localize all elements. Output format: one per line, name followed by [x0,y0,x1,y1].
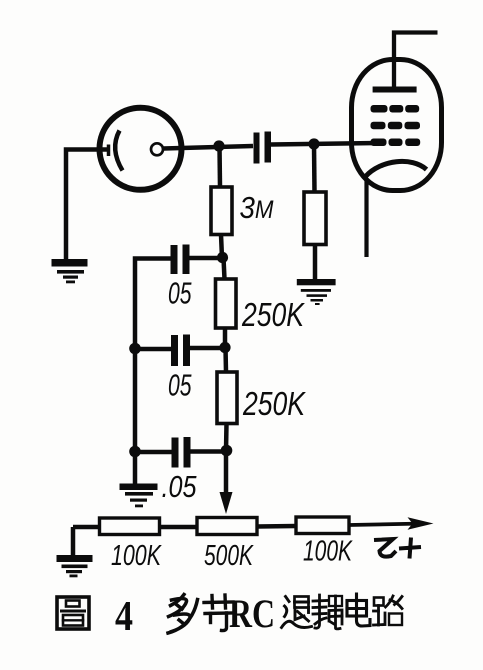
wire: R5 to R6 [160,525,198,530]
char 退 [282,597,312,628]
wire with wiper arrow onto 500K pot [224,451,229,494]
wire: C4 right to node F [191,449,227,454]
resistor R7 100K [296,517,349,534]
wire: circle left into needle, and to ground drop [66,150,110,261]
wire: C4 left to bus [135,450,172,455]
wire: R6 to R7 [257,524,296,529]
wire: R7 to B+ arrow [349,524,424,526]
char 路 [374,596,403,625]
node G (junction dot on left bus) [129,446,141,458]
char 电 [347,594,370,626]
wire: cap C1 to tube grid [271,143,378,145]
node D (junction dot) [219,342,230,353]
tube cathode lead [364,178,368,257]
arrow head (wiper) [220,492,233,514]
resistor R2 (grid leak) [304,192,326,245]
wire: left end [73,527,100,556]
char 圖 [57,597,89,629]
char 节 [204,595,233,631]
pickup transducer P1 (circle) [100,108,182,190]
node A (junction dot at 3M top) [213,140,224,151]
tube grid dashes row 1 [371,105,420,113]
tube V1 envelope [352,60,442,191]
label B+ (乙+) [374,538,421,559]
wire: C2 right to node C [190,256,223,261]
svg-text:05: 05 [168,368,192,403]
resistor R6 500K (pot) [197,518,257,535]
wire: node C to R3 [224,258,225,279]
wire: node A down to R1 [217,146,222,187]
wire: C2 left to left bus [135,259,171,485]
tube grid dashes row 2 [371,122,421,130]
wire: node D to R4 [223,348,228,372]
resistor R3 250K upper [216,279,237,328]
svg-text:4: 4 [115,594,133,640]
ground G4 (bottom left) [57,555,93,577]
capacitor C4 (.05, plates) [172,437,191,468]
node B (junction dot at grid resistor top) [308,138,319,149]
resistor R4 250K lower [217,372,237,424]
wire: C3 right to node D [190,346,225,351]
pickup needle tick [107,145,111,157]
wire: pickup terminal to coupling cap [164,146,254,149]
svg-text:RC: RC [229,591,275,636]
svg-text:.05: .05 [162,469,198,504]
wire: C3 left to bus [135,347,171,352]
svg-text:250K: 250K [242,385,306,422]
char 多 [168,595,198,634]
wire: R4 bottom to node F [224,424,229,452]
svg-text:05: 05 [168,276,192,311]
capacitor C2 (05 upper, plates) [171,245,190,275]
wire: grid resistor top [312,144,317,192]
svg-text:100K: 100K [111,540,162,572]
tube plate bar [373,87,417,93]
svg-text:500K: 500K [204,540,254,572]
pickup output terminal (small circle) [151,143,163,155]
resistor R1 3M [211,187,232,235]
pickup crystal arc [115,131,122,171]
node E (junction dot on left bus) [129,343,141,355]
tube cathode arc [366,161,427,176]
capacitor C3 (05 lower, plates) [171,335,190,367]
wire: R3 bottom to node D [223,328,228,348]
svg-text:100K: 100K [303,536,353,568]
node C (junction dot) [217,252,228,263]
wire: R2 bottom to ground [313,245,318,280]
char 耦 [313,595,342,629]
tube plate lead to top [394,33,438,90]
capacitor C1 (coupling, plates) [254,132,272,164]
ground G1 (below pickup) [52,259,88,283]
svg-text:250K: 250K [241,296,305,333]
tube grid dashes row 3 [371,139,421,147]
ground G3 (left bus bottom) [120,484,158,508]
node F (junction dot) [221,445,233,457]
arrow head B+ [408,517,434,530]
resistor R5 100K [100,518,160,535]
caption: 圖 4 多节RC退耦电路 [57,591,402,640]
wire: R1 bottom to node C [221,235,222,259]
svg-text:3M: 3M [240,190,274,225]
ground G2 (below R2) [297,279,336,305]
